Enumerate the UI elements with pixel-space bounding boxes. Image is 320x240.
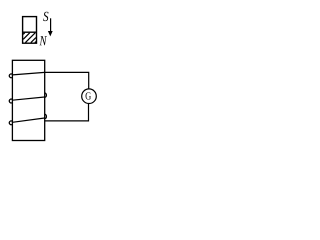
magnet pole divider xyxy=(22,31,37,33)
coil turn 3 xyxy=(9,114,46,124)
magnet bar xyxy=(23,17,37,44)
wire top (coil to galvanometer) xyxy=(45,72,89,89)
label N (magnet pole) xyxy=(39,36,47,45)
label S (magnet pole) xyxy=(43,12,48,21)
coil core frame xyxy=(12,60,44,140)
galvanometer G xyxy=(82,89,97,104)
wire bottom (galvanometer to coil) xyxy=(45,104,89,121)
magnet N-pole hatching xyxy=(23,33,36,43)
coil turn 2 xyxy=(9,93,46,103)
coil turn 1 xyxy=(9,72,44,77)
arrow (magnet moving down) xyxy=(48,18,53,36)
